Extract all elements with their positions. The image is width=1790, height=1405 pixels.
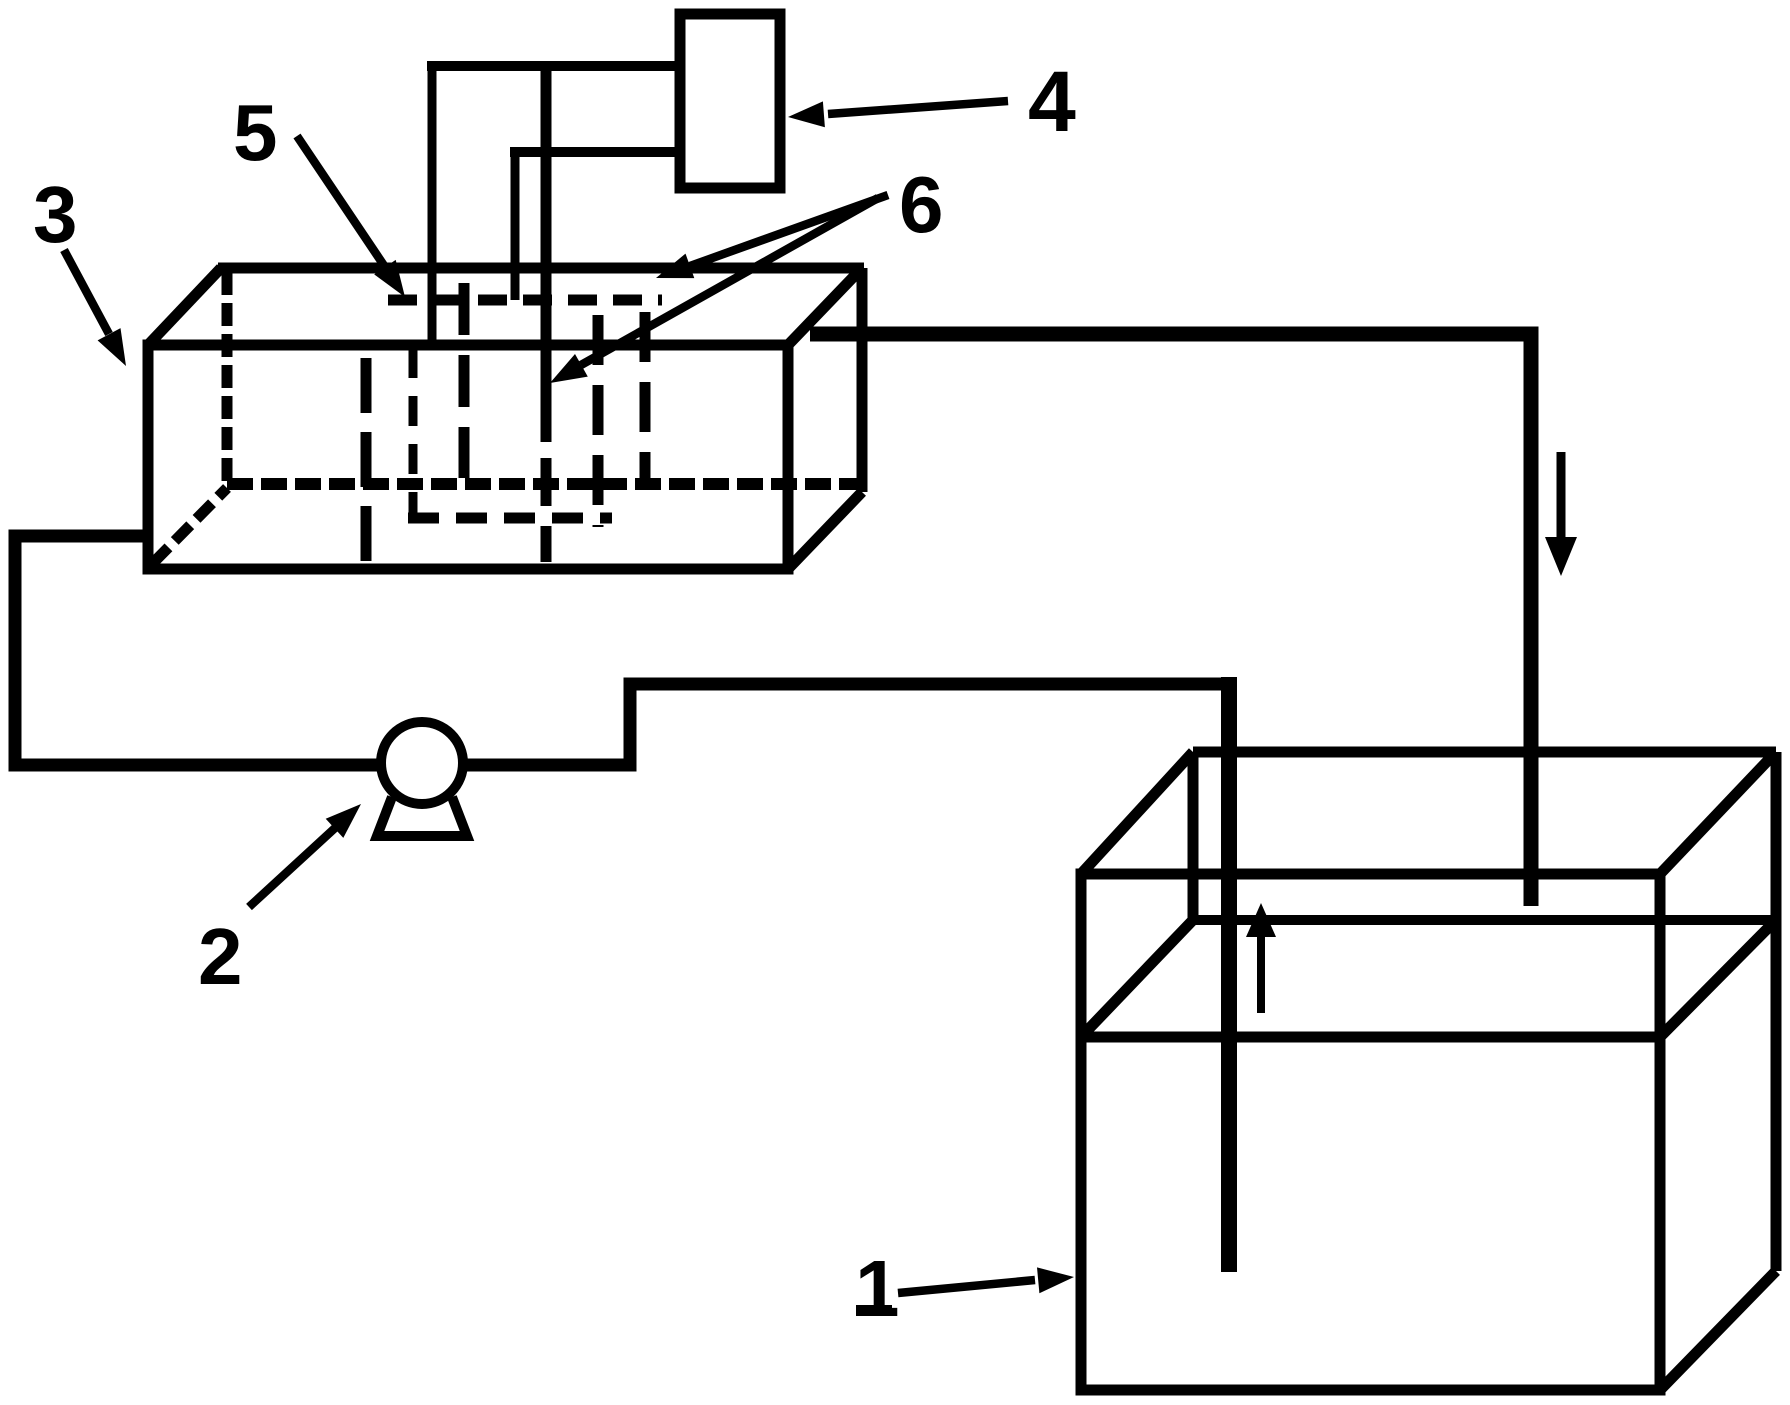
tank 1 water level front line — [1081, 1032, 1660, 1043]
tank 1 water level back line — [1193, 915, 1776, 925]
label 6 arrow a — [690, 195, 888, 266]
cell 3 top-right slant — [788, 268, 862, 345]
electrode dashed vertical d4 — [541, 458, 552, 562]
cell 3 front face — [148, 345, 788, 569]
label 1 base serif — [856, 1305, 892, 1316]
tank 1 top-left slant — [1081, 752, 1193, 874]
svg-text:1: 1 — [855, 1244, 900, 1333]
tank 1 water level right slant — [1660, 920, 1776, 1037]
svg-text:4: 4 — [1028, 54, 1076, 150]
flow arrow up inside tank — [1257, 937, 1265, 1013]
pump 2 pedestal — [377, 797, 467, 836]
electrode dashed vertical d6 — [640, 312, 651, 487]
pipe from cell to tank (top right) — [810, 334, 1531, 906]
label 2 arrow — [249, 828, 335, 907]
electrode stack dashed top line — [388, 295, 662, 306]
electrode dashed vertical d5 — [593, 315, 604, 527]
pipe from cell to pump (left loop) — [15, 536, 378, 765]
svg-text:2: 2 — [198, 912, 243, 1001]
tank 1 top back edge — [1193, 747, 1776, 758]
cell 3 hidden back-left edge (dashed) — [222, 272, 233, 482]
tank 1 front face — [1081, 874, 1660, 1390]
cell 3 back-right edge — [857, 268, 868, 492]
svg-text:6: 6 — [899, 160, 944, 249]
svg-text:3: 3 — [33, 170, 78, 259]
wire W1 from supply to electrode lead — [427, 61, 680, 71]
tank 1 back-right edge — [1771, 752, 1782, 1271]
wire W2 from supply lower terminal — [510, 147, 680, 157]
wire W3 electrode lead into cell — [541, 61, 552, 442]
cell 3 top back edge — [218, 263, 864, 274]
electrode dashed vertical d3 — [459, 283, 470, 478]
cell 3 top-left slant — [148, 268, 221, 345]
label 3 arrow — [64, 250, 109, 334]
pipe from pump to tank riser — [466, 684, 1236, 765]
label 4 arrow — [828, 101, 1008, 114]
cell 3 hidden bottom-left slant (dashed) — [153, 488, 227, 563]
svg-text:5: 5 — [233, 88, 278, 177]
electrode dashed vertical d1 — [361, 358, 372, 564]
electrode dashed vertical d2 — [409, 348, 418, 520]
pump 2 circle — [381, 722, 463, 804]
label 5 arrow — [297, 136, 385, 267]
tank 1 bottom-right slant — [1660, 1271, 1776, 1390]
power supply U4 box — [680, 14, 780, 188]
electrode stack dashed bottom line — [408, 513, 612, 524]
pipe down into tank (left) — [1221, 677, 1237, 1272]
tank 1 back-left edge — [1188, 752, 1199, 920]
label 1 arrow — [898, 1280, 1035, 1293]
label 6 arrow b — [581, 198, 878, 365]
tank 1 water level left slant — [1081, 920, 1193, 1037]
cell 3 bottom-right slant — [788, 492, 862, 569]
flow arrow down beside right pipe — [1557, 452, 1566, 540]
cell 3 hidden back-bottom edge (dashed) — [227, 478, 862, 490]
tank 1 top-right slant — [1660, 752, 1776, 874]
